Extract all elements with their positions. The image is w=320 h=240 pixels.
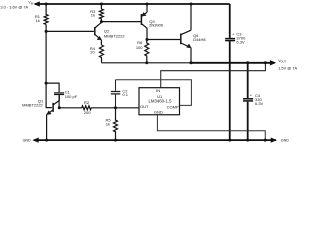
svg-text:1k: 1k [36, 18, 40, 23]
svg-text:100: 100 [136, 45, 143, 50]
svg-text:VOUT: VOUT [278, 59, 286, 64]
wire: U1 IN pin sense to Vout rail [161, 63, 266, 88]
wire: Q4 base [147, 39, 180, 41]
svg-text:20: 20 [90, 50, 95, 55]
svg-text:1k: 1k [91, 12, 95, 17]
svg-text:6.3V: 6.3V [255, 101, 264, 106]
node dot: C4 on gnd rail [246, 139, 249, 142]
capacitor C3 (input electrolytic) [229, 4, 231, 139]
node dot: C3 on gnd rail [228, 139, 231, 142]
resistor R4 [100, 45, 104, 63]
wire: U1 GND pin loop to gnd rail [157, 115, 265, 140]
resistor R3 [99, 4, 103, 22]
wire: R1 bottom vertical to Q1 base [46, 24, 52, 107]
svg-text:LM3460-1.5: LM3460-1.5 [149, 99, 173, 104]
node dot: base tee on R1 vertical [45, 30, 48, 33]
GND arrow right [271, 138, 276, 142]
svg-text:100 pF: 100 pF [65, 94, 78, 99]
resistor R2 (horizontal) [59, 106, 139, 110]
node dot: IN sense on output rail [264, 61, 267, 64]
svg-text:IN: IN [156, 88, 160, 93]
resistor R5 [114, 108, 118, 140]
svg-text:VIN: VIN [28, 1, 33, 6]
wire: Q3 base from R3 node [101, 21, 140, 23]
node dot: rail/R1 [45, 3, 48, 6]
wire: U1 COMP pin to C2 [116, 80, 192, 106]
svg-text:6.3V: 6.3V [236, 40, 245, 45]
node dot: rail/Q4 collector [190, 3, 193, 6]
node dot: Q1 collector node [58, 106, 61, 109]
resistor R1 [44, 4, 48, 24]
wire: top Vin rail [35, 3, 230, 5]
svg-text:GND: GND [154, 110, 163, 115]
node dot: R5 on gnd rail [114, 139, 117, 142]
capacitor C2 0.1 [115, 80, 117, 108]
node dot: Q4 emitter on output rail [190, 61, 193, 64]
capacitor C4 (output electrolytic) [247, 63, 249, 140]
node dot: gnd loop on gnd rail [264, 139, 267, 142]
node dot: R3 bottom / Q2 collector / Q3 base [100, 20, 103, 23]
transistor Q3 2N3906 (PNP) [141, 4, 147, 40]
svg-text:1.5V @ 7A: 1.5V @ 7A [278, 66, 297, 71]
svg-text:0.1: 0.1 [122, 92, 128, 97]
wire: Q2 base from R1 vertical [46, 30, 94, 32]
Vin arrow (left) [34, 2, 39, 6]
Vout arrow [270, 61, 275, 65]
capacitor C1 100pF [46, 83, 59, 108]
svg-text:COMP: COMP [167, 104, 179, 109]
transistor Q2 MMBT2222 (NPN) [95, 22, 102, 45]
svg-text:R2: R2 [84, 100, 90, 105]
node dot: C1 tee on Q1 base vertical [45, 82, 48, 85]
node dot: R6 bottom on output line [145, 61, 148, 64]
svg-text:+: + [250, 93, 253, 98]
svg-text:1k: 1k [106, 121, 110, 126]
transistor Q1 MMBT2222 (NPN) [47, 95, 60, 139]
output rail Vout [102, 62, 192, 64]
svg-text:D44H8: D44H8 [193, 37, 206, 42]
resistor R6 [145, 40, 149, 63]
transistor Q4 D44H8 (NPN pass) [181, 4, 191, 63]
node dot: rail/Q3 emitter [146, 3, 149, 6]
node dot: Q1 emitter on gnd rail [45, 139, 48, 142]
node dot: C4 on output rail [246, 61, 249, 64]
node dot: C2/R5 node on R2 wire [114, 106, 117, 109]
svg-text:GND: GND [23, 139, 31, 143]
svg-text:MMBT2222: MMBT2222 [104, 33, 125, 38]
svg-text:3.0 - 3.6V @ 7A: 3.0 - 3.6V @ 7A [0, 5, 28, 10]
ground rail (bottom) [34, 139, 276, 141]
svg-text:+: + [232, 31, 235, 36]
svg-text:200: 200 [84, 110, 91, 115]
svg-text:OUT: OUT [140, 104, 149, 109]
svg-text:GND: GND [281, 138, 289, 142]
svg-text:MMBT2222: MMBT2222 [22, 103, 43, 108]
svg-text:2N3906: 2N3906 [149, 23, 164, 28]
op-amp U1 regulator box LM3460-1.5 [139, 88, 180, 115]
GND arrow left [33, 138, 38, 142]
node dot: Q3 collector / R6 / Q4 base [146, 38, 149, 41]
node dot: rail/R3 [100, 3, 103, 6]
